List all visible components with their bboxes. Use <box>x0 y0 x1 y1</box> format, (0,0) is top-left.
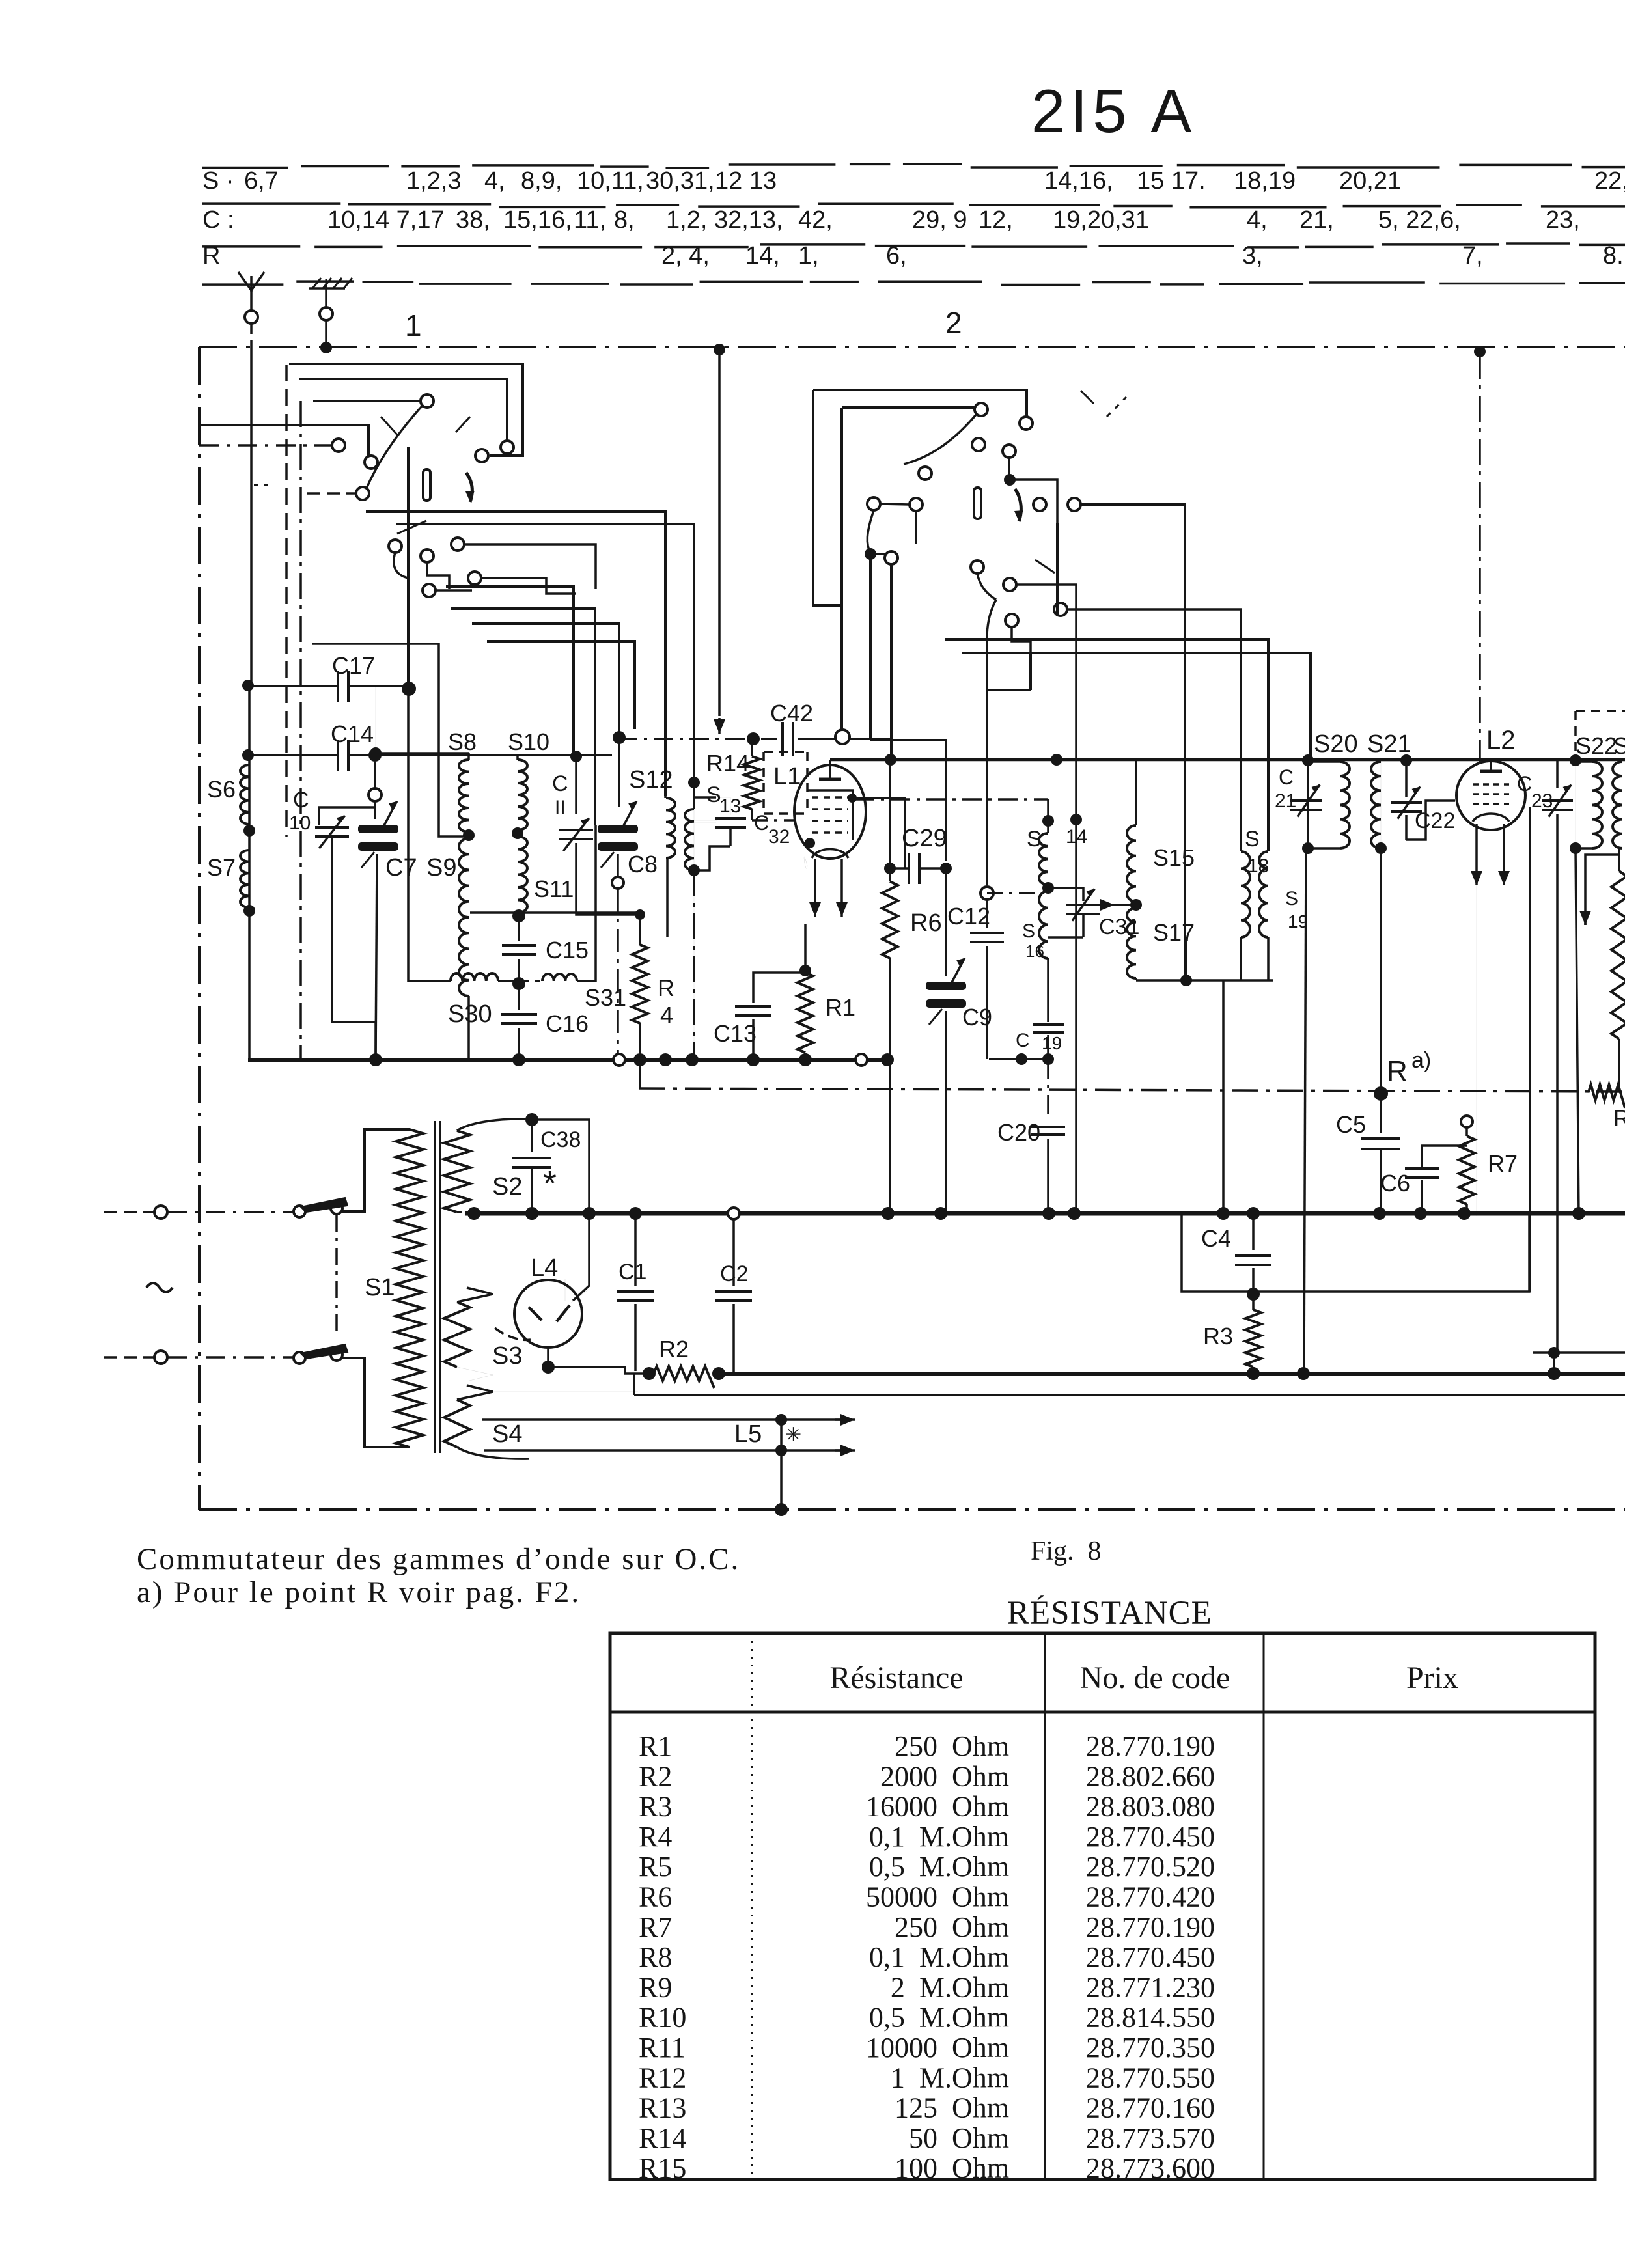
node S10 label <box>508 728 549 755</box>
svg-text:S22: S22 <box>1576 732 1617 759</box>
svg-text:28.770.450: 28.770.450 <box>1086 1941 1215 1973</box>
antenna <box>238 272 264 347</box>
svg-text:3,: 3, <box>1242 242 1263 270</box>
node C5 label <box>1336 1111 1366 1138</box>
svg-text:2I5 A: 2I5 A <box>1031 77 1197 145</box>
coil S22 (dashed box) <box>1570 711 1625 854</box>
node caption line 2 <box>137 1575 581 1609</box>
capacitor C31 (variable) <box>1048 814 1100 937</box>
table frame <box>610 1633 1595 2179</box>
node S15 label <box>1153 844 1195 871</box>
svg-text:S11: S11 <box>534 876 574 902</box>
svg-text:RÉSISTANCE: RÉSISTANCE <box>1007 1595 1212 1631</box>
node C21 label <box>1275 766 1296 812</box>
node S23 label <box>1613 732 1625 759</box>
svg-text:C5: C5 <box>1336 1111 1366 1138</box>
node S22 label <box>1576 732 1617 759</box>
wire L5 line 1 <box>482 1414 855 1426</box>
node S19 label <box>1285 888 1308 932</box>
capacitor C11 (variable) <box>559 751 635 915</box>
node C9 label <box>962 1004 992 1030</box>
node R6 label <box>910 909 942 937</box>
svg-text:Prix: Prix <box>1406 1661 1458 1695</box>
junctions on ground bus <box>369 1053 894 1066</box>
wire R6 bus tail <box>889 1060 891 1213</box>
svg-text:R6: R6 <box>910 909 942 937</box>
svg-text:18,19: 18,19 <box>1234 167 1296 195</box>
svg-text:28.773.570: 28.773.570 <box>1086 2122 1215 2154</box>
svg-text:a): a) <box>1411 1048 1431 1073</box>
node C12 label <box>947 903 990 930</box>
node title 215 A <box>1031 77 1197 145</box>
capacitor C15 <box>502 916 536 981</box>
svg-text:R1: R1 <box>826 994 855 1021</box>
node S row label <box>202 167 279 195</box>
svg-text:28.770.450: 28.770.450 <box>1086 1821 1215 1853</box>
node C2 label <box>720 1262 748 1286</box>
svg-text:4,: 4, <box>484 167 505 195</box>
svg-text:2, 4,: 2, 4, <box>661 242 710 270</box>
coil S20 <box>1302 754 1350 854</box>
svg-text:II: II <box>555 797 566 818</box>
wire C9 column to rail <box>945 1011 947 1216</box>
wire grid line to S14 <box>855 799 1048 821</box>
svg-text:C15: C15 <box>546 937 589 963</box>
svg-text:R8: R8 <box>639 1941 672 1973</box>
node C32 label <box>754 811 790 848</box>
svg-text:C8: C8 <box>628 851 658 878</box>
wire tube cap line <box>830 758 1625 762</box>
node Fig 8 label <box>1031 1536 1102 1566</box>
node C4 label <box>1201 1225 1231 1252</box>
svg-text:10: 10 <box>289 812 311 834</box>
node S16 label <box>1022 920 1044 961</box>
coil S10 <box>512 755 527 839</box>
svg-text:Résistance: Résistance <box>829 1661 963 1695</box>
svg-text:28.770.190: 28.770.190 <box>1086 1911 1215 1943</box>
node S13 label <box>706 782 741 817</box>
svg-text:C42: C42 <box>770 700 813 726</box>
wire L4 anode <box>573 1213 589 1301</box>
svg-text:10000 Ohm: 10000 Ohm <box>866 2032 1009 2064</box>
svg-text:*: * <box>543 1164 557 1203</box>
svg-text:28.803.080: 28.803.080 <box>1086 1791 1215 1823</box>
svg-text:23: 23 <box>1531 790 1553 812</box>
svg-text:S: S <box>1022 920 1035 942</box>
svg-text:1: 1 <box>405 309 422 342</box>
capacitor C19 <box>989 1016 1064 1065</box>
node S20 label <box>1314 730 1358 758</box>
svg-text:2: 2 <box>945 306 962 340</box>
node C6 label <box>1380 1170 1410 1196</box>
wire right feed <box>1533 1347 1625 1374</box>
chassis boundary (dash-dot box) <box>199 347 1625 1510</box>
svg-text:28.770.350: 28.770.350 <box>1086 2032 1215 2064</box>
svg-text:28.770.550: 28.770.550 <box>1086 2062 1215 2094</box>
svg-text:S30: S30 <box>448 1001 492 1028</box>
node C row component numbers <box>327 206 1580 234</box>
wire C4 box <box>1182 1213 1529 1292</box>
svg-text:R14: R14 <box>706 750 749 777</box>
svg-text:R14: R14 <box>639 2122 686 2154</box>
svg-text:22,: 22, <box>1594 167 1625 195</box>
svg-text:R4: R4 <box>639 1821 672 1853</box>
svg-text:L1: L1 <box>773 763 801 790</box>
node S2 label <box>492 1173 522 1200</box>
svg-text:6,: 6, <box>886 242 907 270</box>
resistor R2 <box>643 1366 725 1388</box>
svg-text:✳: ✳ <box>785 1424 801 1446</box>
wire R(a) line <box>639 1086 1625 1101</box>
svg-text:C16: C16 <box>546 1010 589 1037</box>
resistor R4 <box>632 915 648 1088</box>
svg-text:R2: R2 <box>639 1760 672 1792</box>
svg-text:C12: C12 <box>947 903 990 930</box>
svg-text:R3: R3 <box>1203 1323 1233 1349</box>
coil S30 <box>451 973 514 981</box>
svg-text:C22: C22 <box>1415 809 1455 833</box>
node chassis label 2 <box>945 306 962 340</box>
node C1 label <box>618 1260 646 1284</box>
node S31 label <box>585 984 626 1011</box>
svg-text:19,20,31: 19,20,31 <box>1053 206 1149 234</box>
node S18 label <box>1245 827 1269 877</box>
svg-text:0,1 M.Ohm: 0,1 M.Ohm <box>869 1821 1009 1853</box>
svg-text:5, 22,6,: 5, 22,6, <box>1378 206 1461 234</box>
svg-text:14,: 14, <box>745 242 780 270</box>
capacitor C2 <box>715 1220 752 1374</box>
transformer secondary S3 <box>444 1288 493 1381</box>
svg-text:S ·: S · <box>202 167 234 195</box>
node S6 label <box>207 776 236 803</box>
svg-text:C :: C : <box>202 206 234 234</box>
node S8 label <box>448 728 477 755</box>
junction S30/S31 <box>512 977 525 990</box>
svg-text:2000 Ohm: 2000 Ohm <box>880 1760 1009 1792</box>
svg-text:S: S <box>1285 888 1298 909</box>
junction on chassis top right <box>1474 346 1486 357</box>
wire C23 bottom <box>1530 807 1557 1353</box>
wave-band switch bank 1 wiring <box>199 364 694 825</box>
svg-text:S2: S2 <box>492 1173 522 1200</box>
node R8 label <box>1613 1105 1625 1131</box>
node R(a) label <box>1387 1048 1431 1087</box>
capacitor C8 (padder) <box>598 801 638 1060</box>
svg-text:S15: S15 <box>1153 844 1195 871</box>
svg-text:12,: 12, <box>979 206 1013 234</box>
ground <box>309 278 352 348</box>
svg-text:C: C <box>293 788 309 812</box>
mains terminal 2 <box>104 1351 167 1364</box>
tube L2 (IF amp) <box>1456 353 1525 885</box>
svg-text:R: R <box>658 975 674 1001</box>
svg-text:1 M.Ohm: 1 M.Ohm <box>891 2062 1009 2094</box>
node R row resistor numbers <box>661 242 1624 270</box>
svg-text:4,: 4, <box>1247 206 1268 234</box>
svg-text:S6: S6 <box>207 776 236 803</box>
node C31 label <box>1099 915 1139 939</box>
svg-text:C20: C20 <box>997 1119 1040 1146</box>
wire tube grid out <box>848 794 905 868</box>
transformer secondary S4 <box>444 1385 529 1459</box>
wire filament rail <box>465 1211 1625 1216</box>
svg-text:R12: R12 <box>639 2062 686 2094</box>
node L5 label <box>734 1420 762 1448</box>
svg-text:29, 9: 29, 9 <box>912 206 967 234</box>
capacitor C13 <box>735 973 805 1060</box>
svg-text:0,1 M.Ohm: 0,1 M.Ohm <box>869 1941 1009 1973</box>
svg-text:13: 13 <box>719 795 741 817</box>
node C10 label <box>289 788 311 834</box>
svg-text:S1: S1 <box>365 1274 395 1301</box>
svg-text:21,: 21, <box>1299 206 1334 234</box>
coil S18 <box>1241 851 1250 980</box>
coil S15 <box>1127 760 1142 911</box>
node table title <box>1007 1595 1212 1631</box>
svg-text:30,31,: 30,31, <box>646 167 715 195</box>
node C8 label <box>628 851 658 878</box>
svg-text:S9: S9 <box>426 854 456 881</box>
svg-text:S4: S4 <box>492 1420 522 1448</box>
coil S23 <box>1613 762 1622 848</box>
svg-text:R7: R7 <box>1488 1150 1518 1177</box>
svg-text:28.770.160: 28.770.160 <box>1086 2092 1215 2124</box>
coil S13 <box>685 777 700 1060</box>
wire S30 left end <box>408 687 451 981</box>
svg-text:R: R <box>1613 1105 1625 1131</box>
node S9 label <box>426 854 456 881</box>
inductor L1 (dashed box) <box>764 752 807 814</box>
capacitor C7 (padder) <box>358 801 398 1060</box>
wire return line <box>634 1374 1625 1395</box>
capacitor C42 <box>613 722 891 756</box>
node C7 label <box>385 854 417 881</box>
svg-text:S: S <box>1613 732 1625 759</box>
wire S22 bottom <box>1576 848 1579 1216</box>
capacitor C32 <box>694 797 746 870</box>
svg-text:C7: C7 <box>385 854 417 881</box>
svg-text:15 17.: 15 17. <box>1137 167 1206 195</box>
svg-text:7,: 7, <box>1462 242 1483 270</box>
node S21 label <box>1367 730 1411 758</box>
svg-text:1,2,3: 1,2,3 <box>406 167 462 195</box>
node L5 star <box>781 1420 801 1450</box>
node S3 label <box>492 1342 522 1370</box>
svg-text:12 13: 12 13 <box>715 167 777 195</box>
svg-text:L5: L5 <box>734 1420 762 1448</box>
svg-text:R2: R2 <box>659 1336 689 1362</box>
wire S17 bottom bus <box>1136 941 1273 986</box>
svg-text:R11: R11 <box>639 2032 686 2064</box>
node S14 label <box>1027 826 1087 851</box>
node C29 label <box>902 825 947 852</box>
svg-text:C1: C1 <box>618 1260 646 1284</box>
wire L1 to grid <box>752 808 796 820</box>
svg-text:100 Ohm: 100 Ohm <box>895 2152 1009 2184</box>
svg-text:C13: C13 <box>714 1020 757 1047</box>
tube L4 (rectifier) <box>495 1279 589 1348</box>
svg-text:28.770.420: 28.770.420 <box>1086 1881 1215 1913</box>
svg-text:Commutateur des gammes d’onde: Commutateur des gammes d’onde sur O.C. <box>137 1542 740 1576</box>
capacitor C5 <box>1361 1094 1400 1216</box>
wire S row boundary lines <box>202 164 1625 284</box>
tube U1 (mixer) <box>794 760 866 917</box>
node S row contact numbers <box>406 167 1625 195</box>
wire switch links <box>335 1215 338 1331</box>
wire L5 to chassis <box>775 1450 788 1516</box>
svg-text:23,: 23, <box>1546 206 1580 234</box>
transformer core <box>435 1121 440 1453</box>
svg-text:8,9,: 8,9, <box>521 167 562 195</box>
svg-text:0,5 M.Ohm: 0,5 M.Ohm <box>869 1851 1009 1883</box>
svg-text:C4: C4 <box>1201 1225 1231 1252</box>
transformer secondary S2 <box>444 1113 538 1212</box>
wire mains to switch <box>167 1212 293 1357</box>
coil S9 <box>459 838 469 1060</box>
node S11 label <box>534 876 574 902</box>
svg-text:R: R <box>1387 1055 1408 1087</box>
coil S8 <box>459 753 475 841</box>
junction on chassis top at ground <box>320 342 332 353</box>
svg-text:21: 21 <box>1275 790 1296 812</box>
svg-text:250 Ohm: 250 Ohm <box>895 1730 1009 1762</box>
wire C38 top link <box>532 1120 589 1213</box>
capacitor C9 (padder) <box>926 868 966 1216</box>
node R2 label <box>659 1336 689 1362</box>
svg-text:S: S <box>1245 827 1260 851</box>
capacitor C12 <box>970 887 1004 1059</box>
node R3 label <box>1203 1323 1233 1349</box>
wire S21 bottom <box>1380 848 1382 1094</box>
node L4 label <box>531 1254 558 1282</box>
svg-text:0,5 M.Ohm: 0,5 M.Ohm <box>869 2002 1009 2034</box>
svg-text:R10: R10 <box>639 2002 686 2034</box>
node R4 label <box>658 975 674 1029</box>
svg-text:R1: R1 <box>639 1730 672 1762</box>
svg-text:10,14 7,17: 10,14 7,17 <box>327 206 445 234</box>
svg-text:C: C <box>1279 766 1294 789</box>
resistor R6 <box>882 760 898 1057</box>
wire R9 link <box>1579 855 1619 925</box>
node table header No de code <box>1080 1661 1230 1695</box>
node R1 label <box>826 994 855 1021</box>
svg-text:28.814.550: 28.814.550 <box>1086 2002 1215 2034</box>
svg-text:16000 Ohm: 16000 Ohm <box>866 1791 1009 1823</box>
wire S4 leads <box>493 1391 638 1392</box>
capacitor C14 <box>242 740 612 771</box>
node C17 label <box>332 652 375 679</box>
wire B+ feed <box>1304 848 1306 1374</box>
wire RF ground bus <box>248 1058 890 1062</box>
capacitor C1 <box>617 1213 654 1371</box>
svg-text:R13: R13 <box>639 2092 686 2124</box>
resistor R7 <box>1459 1116 1475 1216</box>
svg-text:19: 19 <box>1042 1033 1062 1053</box>
node S30 label <box>448 1001 492 1028</box>
node C14 label <box>331 721 374 747</box>
node chassis label 1 <box>405 309 422 342</box>
node AC symbol <box>146 1283 173 1292</box>
node L2 label <box>1486 726 1516 754</box>
svg-text:C2: C2 <box>720 1262 748 1286</box>
svg-text:R15: R15 <box>639 2152 686 2184</box>
capacitor C21 (variable) <box>1290 784 1322 816</box>
junction R4 top <box>635 909 645 920</box>
capacitor C22 (variable) <box>1391 786 1455 840</box>
capacitor C29 <box>895 853 952 884</box>
svg-text:C: C <box>1016 1030 1030 1051</box>
resistor R8 <box>1589 1085 1625 1108</box>
node C42 label <box>770 700 813 726</box>
svg-text:S31: S31 <box>585 984 626 1011</box>
svg-text:125 Ohm: 125 Ohm <box>895 2092 1009 2124</box>
node C38 label <box>540 1127 581 1152</box>
svg-text:Fig. 8: Fig. 8 <box>1031 1536 1102 1566</box>
wire HT rail <box>719 1372 1625 1376</box>
svg-text:S7: S7 <box>207 854 236 881</box>
resistor R1 <box>798 924 813 1060</box>
svg-text:L4: L4 <box>531 1254 558 1282</box>
wire 1653 column <box>1075 820 1077 1213</box>
node S17 label <box>1153 919 1195 946</box>
node C11 label <box>552 771 568 818</box>
svg-text:R7: R7 <box>639 1911 672 1943</box>
node C13 label <box>714 1020 757 1047</box>
svg-text:250 Ohm: 250 Ohm <box>895 1911 1009 1943</box>
svg-text:1,2, 32,13,: 1,2, 32,13, <box>666 206 783 234</box>
wire C12 link <box>987 892 1042 894</box>
mains switch upper <box>294 1198 348 1217</box>
svg-text:50 Ohm: 50 Ohm <box>909 2122 1009 2154</box>
node caption line 1 <box>137 1542 740 1576</box>
svg-text:38,: 38, <box>456 206 490 234</box>
wire chassis to C42 node <box>714 350 725 734</box>
svg-text:4: 4 <box>660 1002 673 1029</box>
svg-text:42,: 42, <box>798 206 833 234</box>
svg-text:2 M.Ohm: 2 M.Ohm <box>891 1971 1009 2003</box>
svg-text:50000 Ohm: 50000 Ohm <box>866 1881 1009 1913</box>
svg-text:C6: C6 <box>1380 1170 1410 1196</box>
wire top link <box>376 753 576 756</box>
svg-text:1,: 1, <box>798 242 819 270</box>
node L1 label <box>773 763 801 790</box>
wire S8 top <box>370 687 469 759</box>
resistor R14 <box>744 739 760 820</box>
wire S9/S11/R4 link <box>470 911 640 914</box>
resistor R9 <box>1611 848 1625 1092</box>
mains terminal 1 <box>104 1206 167 1219</box>
junction tube cap line <box>885 754 1062 766</box>
svg-text:C: C <box>552 771 568 796</box>
node S12 label <box>629 766 673 794</box>
wire S31 right end <box>577 825 596 981</box>
junction on chassis top <box>714 344 725 355</box>
svg-text:R6: R6 <box>639 1881 672 1913</box>
coil S7 <box>240 850 255 1060</box>
svg-text:R3: R3 <box>639 1791 672 1823</box>
node C23 label <box>1517 772 1553 812</box>
svg-text:20,21: 20,21 <box>1339 167 1401 195</box>
coil S12 <box>665 796 675 937</box>
capacitor C16 <box>501 984 537 1060</box>
svg-text:S3: S3 <box>492 1342 522 1370</box>
node S4 label <box>492 1420 522 1448</box>
node R7 label <box>1488 1150 1518 1177</box>
svg-text:28.773.600: 28.773.600 <box>1086 2152 1215 2184</box>
svg-text:C: C <box>1517 772 1532 795</box>
capacitor C4 <box>1235 1213 1271 1301</box>
junction HT rail <box>1247 1367 1561 1380</box>
